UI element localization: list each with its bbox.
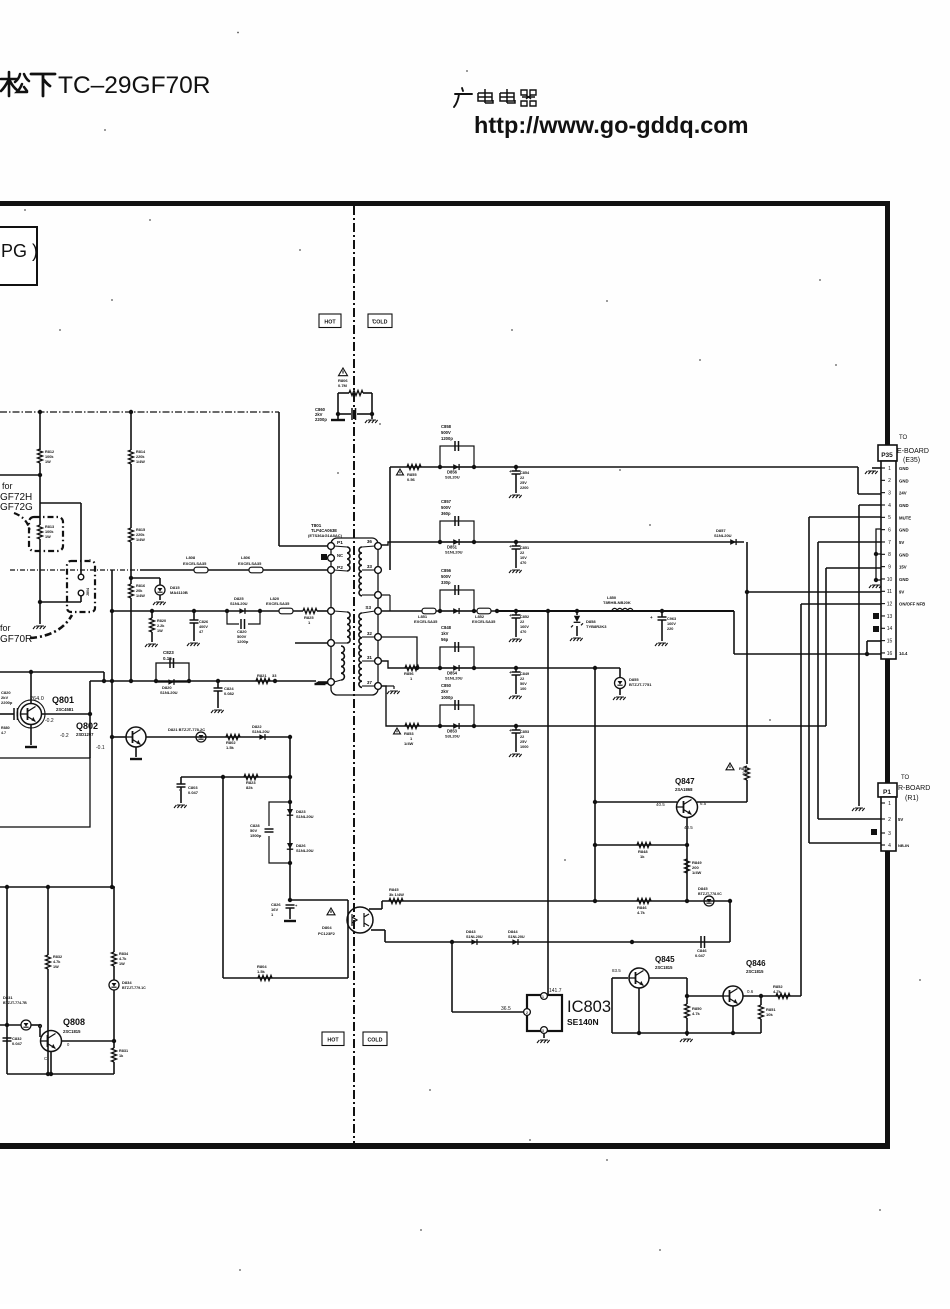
svg-text:S3L20U: S3L20U <box>445 475 460 480</box>
svg-text:2200p: 2200p <box>315 417 327 422</box>
svg-text:33: 33 <box>367 564 373 569</box>
svg-text:+: + <box>650 615 653 620</box>
svg-text:BTZJT-778.0C: BTZJT-778.0C <box>698 892 722 896</box>
svg-text:37: 37 <box>367 680 373 685</box>
svg-text:R820: R820 <box>157 619 166 623</box>
svg-text:J804: J804 <box>86 588 90 596</box>
svg-text:1/4W: 1/4W <box>692 870 702 875</box>
svg-text:C848: C848 <box>441 625 452 630</box>
svg-text:-0.1: -0.1 <box>96 745 105 751</box>
svg-text:EXCELSA35: EXCELSA35 <box>472 619 496 624</box>
svg-text:36: 36 <box>367 539 373 544</box>
svg-text:S1NL20U: S1NL20U <box>160 690 178 695</box>
svg-text:330p: 330p <box>441 580 451 585</box>
svg-text:R832: R832 <box>53 955 62 959</box>
svg-text:2SD1297: 2SD1297 <box>76 732 94 737</box>
svg-text:EXCELSA35: EXCELSA35 <box>183 561 207 566</box>
svg-text:Q846: Q846 <box>746 959 766 968</box>
svg-text:1/4W: 1/4W <box>136 594 145 598</box>
svg-text:NB-IN: NB-IN <box>898 843 909 848</box>
svg-text:TYB8R2K3: TYB8R2K3 <box>586 624 607 629</box>
svg-text:0.047: 0.047 <box>12 1041 23 1046</box>
svg-text:22: 22 <box>520 735 524 739</box>
svg-text:S1NL20U: S1NL20U <box>445 550 463 555</box>
svg-text:COLD: COLD <box>372 320 387 326</box>
svg-text:D834: D834 <box>122 980 132 985</box>
svg-text:Q808: Q808 <box>63 1017 85 1027</box>
svg-text:400V: 400V <box>199 625 208 629</box>
svg-text:1000p: 1000p <box>441 695 453 700</box>
svg-text:Q801: Q801 <box>52 695 74 705</box>
svg-text:R821: R821 <box>257 673 267 678</box>
svg-text:360p: 360p <box>441 511 451 516</box>
svg-text:GF72G: GF72G <box>0 502 33 513</box>
svg-text:1/4W: 1/4W <box>136 538 145 542</box>
svg-text:R834: R834 <box>119 952 129 956</box>
svg-text:2200: 2200 <box>520 486 528 490</box>
svg-text:S3: S3 <box>365 605 371 610</box>
svg-text:2SC4581: 2SC4581 <box>56 707 74 712</box>
svg-text:for: for <box>2 481 13 491</box>
svg-text:MUTE: MUTE <box>899 515 911 520</box>
svg-text:GND: GND <box>899 528 909 533</box>
svg-text:GND: GND <box>899 577 909 582</box>
svg-text:2SC1815: 2SC1815 <box>655 965 673 970</box>
svg-text:2: 2 <box>526 1011 528 1015</box>
svg-text:2kV: 2kV <box>441 689 449 694</box>
svg-text:C853: C853 <box>520 730 529 734</box>
svg-text:S1NL20U: S1NL20U <box>230 601 248 606</box>
svg-text:47: 47 <box>199 630 203 634</box>
svg-text:3: 3 <box>542 1029 544 1033</box>
svg-text:1500p: 1500p <box>250 833 262 838</box>
svg-text:160V: 160V <box>667 622 676 626</box>
svg-text:1200p: 1200p <box>237 639 249 644</box>
svg-text:GND: GND <box>899 478 909 483</box>
svg-text:13: 13 <box>887 614 893 620</box>
svg-text:9V: 9V <box>899 589 904 594</box>
svg-text:D843: D843 <box>466 929 476 934</box>
svg-text:C852: C852 <box>520 615 529 619</box>
svg-text:S1NL20U: S1NL20U <box>296 814 314 819</box>
svg-text:2200p: 2200p <box>1 700 13 705</box>
svg-text:L806: L806 <box>241 555 251 560</box>
svg-text:D845: D845 <box>698 886 708 891</box>
svg-text:D844: D844 <box>508 929 518 934</box>
svg-text:24V: 24V <box>899 491 907 496</box>
svg-text:S1NL20U: S1NL20U <box>508 935 525 939</box>
svg-text:C851: C851 <box>520 546 529 550</box>
svg-text:6: 6 <box>888 527 891 533</box>
svg-text:4.7k: 4.7k <box>692 1011 701 1016</box>
svg-text:1/4W: 1/4W <box>136 460 145 464</box>
svg-text:BTZJT-7751: BTZJT-7751 <box>629 682 652 687</box>
svg-text:P1: P1 <box>337 540 343 546</box>
svg-text:T8RHB-NB20K: T8RHB-NB20K <box>603 600 631 605</box>
svg-text:TO: TO <box>899 435 908 441</box>
svg-text:C854: C854 <box>520 471 530 475</box>
svg-text:EXCELSA35: EXCELSA35 <box>238 561 262 566</box>
svg-text:8: 8 <box>888 552 891 558</box>
svg-text:15V: 15V <box>899 565 907 570</box>
svg-text:C856: C856 <box>441 568 452 573</box>
svg-text:0.082: 0.082 <box>224 691 235 696</box>
svg-text:(R1): (R1) <box>905 795 919 802</box>
svg-text:1: 1 <box>888 801 891 807</box>
svg-text:3: 3 <box>888 831 891 837</box>
svg-text:L808: L808 <box>186 555 196 560</box>
svg-text:BTZJT-779.1C: BTZJT-779.1C <box>122 986 146 990</box>
svg-text:http://www.go-gddq.com: http://www.go-gddq.com <box>474 112 749 138</box>
svg-text:Q845: Q845 <box>655 955 675 964</box>
svg-text:40.5: 40.5 <box>684 825 693 830</box>
svg-text:4.7k: 4.7k <box>53 960 61 964</box>
svg-text:1: 1 <box>542 995 544 999</box>
svg-text:82k: 82k <box>246 785 253 790</box>
svg-text:15: 15 <box>887 638 893 644</box>
svg-text:R-BOARD: R-BOARD <box>898 785 930 792</box>
svg-text:50V: 50V <box>520 682 527 686</box>
svg-text:3: 3 <box>888 490 891 496</box>
svg-text:R880: R880 <box>1 726 10 730</box>
svg-text:MA4110B: MA4110B <box>170 590 188 595</box>
svg-text:COLD: COLD <box>367 1038 382 1044</box>
svg-text:1: 1 <box>888 466 891 472</box>
svg-text:2.2k: 2.2k <box>157 624 165 628</box>
svg-text:S3L20U: S3L20U <box>445 734 460 739</box>
svg-text:1W: 1W <box>53 965 59 969</box>
svg-text:C849: C849 <box>520 672 529 676</box>
svg-text:2SA1868: 2SA1868 <box>675 787 693 792</box>
svg-text:4.7k: 4.7k <box>773 989 782 994</box>
svg-text:12: 12 <box>887 601 893 607</box>
svg-text:25V: 25V <box>520 740 527 744</box>
svg-text:5V: 5V <box>898 817 903 822</box>
svg-text:+: + <box>509 728 512 733</box>
svg-text:1W: 1W <box>45 535 51 539</box>
svg-text:SE140N: SE140N <box>567 1017 599 1027</box>
svg-text:4: 4 <box>888 843 891 849</box>
svg-text:5V: 5V <box>899 540 904 545</box>
svg-text:2SC1815: 2SC1815 <box>63 1029 81 1034</box>
svg-text:1W: 1W <box>157 629 163 633</box>
svg-text:for: for <box>0 623 11 633</box>
svg-text:0.56: 0.56 <box>407 477 416 482</box>
svg-text:HOT: HOT <box>327 1038 339 1044</box>
svg-text:Q847: Q847 <box>675 777 695 786</box>
svg-text:+: + <box>509 469 512 474</box>
svg-text:D821 BTZJT-778.2C: D821 BTZJT-778.2C <box>168 727 205 732</box>
svg-text:500V: 500V <box>441 505 451 510</box>
svg-text:-0.2: -0.2 <box>45 718 54 724</box>
svg-text:C823: C823 <box>163 650 174 655</box>
svg-text:10: 10 <box>887 577 893 583</box>
svg-text:R813: R813 <box>45 525 54 529</box>
svg-text:E-BOARD: E-BOARD <box>897 448 929 455</box>
svg-text:1000: 1000 <box>520 745 528 749</box>
svg-text:S1NL20U: S1NL20U <box>714 533 732 538</box>
svg-text:-0.2: -0.2 <box>60 733 69 739</box>
svg-text:0.7M: 0.7M <box>338 383 348 388</box>
svg-text:5: 5 <box>888 515 891 521</box>
svg-text:10V: 10V <box>520 556 527 560</box>
svg-text:R815: R815 <box>136 528 145 532</box>
svg-text:C857: C857 <box>441 499 452 504</box>
svg-text:EXCELSA35: EXCELSA35 <box>414 619 438 624</box>
svg-text:1W: 1W <box>119 962 125 966</box>
svg-text:1k: 1k <box>640 854 645 859</box>
svg-text:22: 22 <box>520 677 524 681</box>
svg-text:500V: 500V <box>441 574 451 579</box>
svg-text:3k 1/4W: 3k 1/4W <box>389 892 404 897</box>
svg-text:9: 9 <box>888 564 891 570</box>
svg-text:20k: 20k <box>136 589 143 593</box>
svg-text:TC–29GF70R: TC–29GF70R <box>58 72 211 99</box>
svg-text:56p: 56p <box>441 637 449 642</box>
svg-text:0.6: 0.6 <box>747 989 754 994</box>
svg-text:R814: R814 <box>136 450 146 454</box>
svg-text:EXCELSA35: EXCELSA35 <box>266 601 290 606</box>
svg-text:11: 11 <box>887 589 892 595</box>
svg-text:GND: GND <box>899 466 909 471</box>
svg-text:S1NL20U: S1NL20U <box>252 729 270 734</box>
svg-text:GND: GND <box>899 552 909 557</box>
svg-text:470: 470 <box>520 630 526 634</box>
svg-text:4.7: 4.7 <box>1 731 6 735</box>
svg-text:33: 33 <box>272 673 277 678</box>
svg-text:4: 4 <box>888 503 891 509</box>
svg-text:R816: R816 <box>136 584 145 588</box>
svg-text:(ETS36AG1A8AC): (ETS36AG1A8AC) <box>308 533 343 538</box>
svg-text:P35: P35 <box>881 452 893 459</box>
svg-text:S1NL20U: S1NL20U <box>296 848 314 853</box>
svg-text:141.7: 141.7 <box>549 988 562 994</box>
svg-text:264.0: 264.0 <box>30 696 44 702</box>
svg-text:R812: R812 <box>45 450 54 454</box>
svg-text:36.5: 36.5 <box>501 1006 511 1012</box>
svg-text:R831: R831 <box>119 1049 128 1053</box>
svg-text:0.15: 0.15 <box>163 656 172 661</box>
svg-text:83.5: 83.5 <box>612 968 621 973</box>
svg-text:2: 2 <box>888 478 891 484</box>
svg-text:IC803: IC803 <box>567 998 611 1016</box>
svg-text:+: + <box>509 613 512 618</box>
svg-text:4.7k: 4.7k <box>119 957 127 961</box>
svg-text:470: 470 <box>520 561 526 565</box>
svg-text:2: 2 <box>888 817 891 823</box>
svg-text:7: 7 <box>888 540 891 546</box>
svg-text:TO: TO <box>901 775 910 781</box>
svg-text:1.5k: 1.5k <box>226 745 235 750</box>
svg-text:4.7k: 4.7k <box>637 910 646 915</box>
svg-text:S1NL20U: S1NL20U <box>466 935 483 939</box>
svg-text:22: 22 <box>520 476 524 480</box>
svg-text:C963: C963 <box>667 617 676 621</box>
svg-text:14: 14 <box>887 626 893 632</box>
svg-text:C826: C826 <box>199 620 208 624</box>
svg-text:1W: 1W <box>45 460 51 464</box>
svg-text:ON/OFF NFB: ON/OFF NFB <box>899 602 925 607</box>
svg-text:+: + <box>509 544 512 549</box>
svg-text:C858: C858 <box>441 424 452 429</box>
svg-text:2SC1815: 2SC1815 <box>746 969 764 974</box>
svg-text:40.5: 40.5 <box>656 802 665 807</box>
svg-text:BTZJT-774.7B: BTZJT-774.7B <box>3 1001 27 1005</box>
svg-text:160V: 160V <box>520 625 529 629</box>
svg-text:P1: P1 <box>883 789 891 796</box>
svg-text:Q802: Q802 <box>76 721 98 731</box>
svg-text:(E35): (E35) <box>903 457 920 464</box>
svg-text:22: 22 <box>520 551 524 555</box>
svg-text:14.4: 14.4 <box>899 651 908 656</box>
svg-text:1kV: 1kV <box>441 631 449 636</box>
svg-text:GF70R: GF70R <box>0 634 32 645</box>
svg-text:D804: D804 <box>322 925 332 930</box>
svg-text:S1NL20U: S1NL20U <box>445 676 463 681</box>
svg-text:100: 100 <box>520 687 526 691</box>
svg-text:GND: GND <box>899 503 909 508</box>
svg-text:100k: 100k <box>45 455 54 459</box>
svg-text:22: 22 <box>520 620 524 624</box>
svg-text:100k: 100k <box>45 530 54 534</box>
svg-text:+: + <box>509 670 512 675</box>
svg-text:220k: 220k <box>136 455 145 459</box>
svg-text:1.5k: 1.5k <box>257 969 266 974</box>
svg-text:25V: 25V <box>520 481 527 485</box>
svg-text:0.047: 0.047 <box>695 953 706 958</box>
svg-text:220: 220 <box>667 627 673 631</box>
svg-text:500V: 500V <box>441 430 451 435</box>
svg-text:PC123F2: PC123F2 <box>318 931 336 936</box>
svg-text:NC: NC <box>337 553 343 558</box>
svg-text:PG ): PG ) <box>1 241 38 261</box>
svg-text:31: 31 <box>367 655 373 660</box>
svg-text:10k: 10k <box>766 1012 773 1017</box>
svg-text:32: 32 <box>367 631 373 636</box>
svg-text:1200p: 1200p <box>441 436 453 441</box>
svg-text:HOT: HOT <box>324 320 336 326</box>
svg-text:C850: C850 <box>441 683 452 688</box>
svg-text:D831: D831 <box>3 995 13 1000</box>
svg-text:16: 16 <box>887 651 893 657</box>
svg-text:220k: 220k <box>136 533 145 537</box>
svg-text:1/4W: 1/4W <box>404 741 414 746</box>
svg-text:0.047: 0.047 <box>188 790 199 795</box>
